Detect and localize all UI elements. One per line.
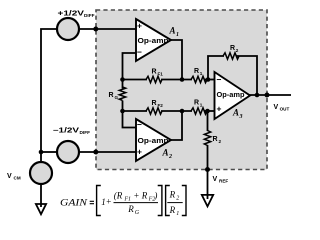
node: A3 output (255, 93, 260, 98)
node: VOUT box edge (265, 93, 270, 98)
svg-text:R: R (194, 68, 199, 75)
svg-text:–1/2V: –1/2V (53, 128, 79, 135)
svg-text:V: V (274, 104, 279, 111)
svg-text:F1: F1 (123, 197, 131, 203)
svg-text:1: 1 (176, 211, 179, 217)
svg-text:Op-amp: Op-amp (138, 36, 170, 45)
wire: A1 inverting input to RG top (123, 53, 137, 89)
svg-text:+: + (217, 104, 222, 114)
svg-text:R: R (169, 205, 176, 215)
ground arrow below VCM (36, 204, 46, 214)
wire: A3 output to VOUT (249, 94, 291, 96)
svg-text:V: V (7, 173, 12, 180)
wire: bottom summing row (RG node to RF2) (123, 110, 148, 112)
resistor RF2 (146, 100, 163, 114)
voltage source +1/2VDIFF (57, 11, 95, 40)
svg-text:Op-amp: Op-amp (217, 90, 245, 99)
svg-text:G: G (115, 95, 119, 100)
node: VCM / -1/2VDIFF junction (39, 150, 44, 155)
node: box edge input 1 (93, 27, 98, 32)
node: RG bottom (120, 109, 125, 114)
svg-text:A: A (162, 148, 169, 158)
resistor RF1 (146, 69, 163, 83)
wire: A3 feedback loop left/top to R2 (208, 56, 224, 80)
wire: R1 to A3 inverting input (204, 79, 215, 81)
node: A3 inverting input (206, 77, 211, 82)
svg-text:GAIN: GAIN (60, 197, 88, 207)
svg-text:2: 2 (219, 139, 222, 144)
op-amp A1 (136, 19, 179, 61)
wire: +1/2VDIFF source left lead down to VCM node (41, 29, 57, 162)
amplifier internal boundary (shaded dashed box) (96, 10, 267, 170)
node: A1 output (180, 77, 185, 82)
svg-text:A: A (169, 26, 176, 36)
svg-text:F2: F2 (158, 103, 164, 108)
svg-text:2: 2 (168, 154, 172, 160)
svg-text:−: − (137, 47, 142, 57)
svg-text:CM: CM (14, 176, 21, 181)
svg-text:3: 3 (239, 114, 243, 120)
svg-text:REF: REF (219, 179, 228, 184)
node: VREF box edge (205, 167, 210, 172)
svg-text:−: − (137, 120, 142, 130)
svg-text:R: R (152, 100, 157, 107)
resistor R1 (top series) (191, 68, 207, 83)
svg-text:1: 1 (176, 32, 179, 38)
wire: RF2 to R1 bottom (through A2 output node) (161, 110, 192, 112)
svg-text:R: R (169, 190, 176, 200)
wire: R2 to A3 output node (236, 56, 257, 95)
svg-text:+: + (106, 197, 112, 207)
svg-text:R: R (152, 69, 157, 76)
wire: A3 + node down to R2 and VREF (207, 111, 209, 131)
svg-text:DIFF: DIFF (80, 130, 91, 135)
svg-text:+1/2V: +1/2V (58, 11, 85, 18)
wire: A1 output down to top row (170, 40, 182, 80)
svg-text:+ R: + R (133, 190, 147, 200)
svg-text:2: 2 (236, 48, 239, 53)
svg-text:R: R (194, 100, 199, 107)
svg-text:G: G (135, 210, 140, 216)
node: box edge input 2 (93, 150, 98, 155)
resistor R1 (bottom series) (191, 100, 207, 115)
svg-text:1: 1 (200, 71, 203, 76)
svg-text:(R: (R (114, 190, 123, 200)
node: A3 non-inverting input (205, 109, 210, 114)
op-amp A3 (215, 72, 251, 120)
svg-text:R: R (230, 45, 235, 52)
node: A2 output (180, 109, 185, 114)
voltage source -1/2VDIFF (53, 128, 90, 163)
wire: A2 output up to bottom row (170, 111, 182, 140)
wire: R1 bottom to A3 non-inverting input (204, 110, 215, 112)
wire: -1/2VDIFF source to A2 + input (79, 151, 136, 153)
svg-text:R: R (127, 204, 134, 214)
resistor R2 (to VREF) (204, 131, 221, 146)
svg-text:R: R (109, 92, 114, 99)
svg-text:DIFF: DIFF (84, 13, 95, 18)
svg-text:−: − (217, 75, 222, 85)
svg-text:A: A (232, 108, 239, 118)
svg-text:): ) (153, 190, 157, 200)
resistor R2 (feedback) (223, 45, 239, 59)
svg-text:1: 1 (200, 102, 203, 107)
svg-text:R: R (213, 136, 218, 143)
voltage source VCM (7, 162, 52, 184)
gain formula (60, 186, 186, 217)
op-amp A2 (136, 119, 172, 161)
svg-text:V: V (213, 176, 218, 183)
svg-text:OUT: OUT (280, 107, 290, 112)
wire: RG bottom to A2 inverting input (123, 101, 137, 128)
svg-text:+: + (137, 147, 142, 157)
node: RG top (120, 77, 125, 82)
wire: RF1 to R1 (through A1 output node) (161, 79, 192, 81)
wire: top summing row (RG node to RF1) (123, 79, 148, 81)
svg-text:Op-amp: Op-amp (138, 136, 170, 145)
svg-text:F1: F1 (158, 72, 164, 77)
svg-text:2: 2 (176, 196, 179, 202)
VREF ground arrow (202, 195, 213, 207)
resistor RG (109, 87, 126, 100)
wire: +1/2VDIFF source to A1 + input (79, 28, 136, 30)
wire: VCM node to -1/2VDIFF source (41, 151, 57, 153)
wire: VCM source to ground arrow (40, 184, 42, 205)
svg-text:+: + (137, 21, 142, 31)
